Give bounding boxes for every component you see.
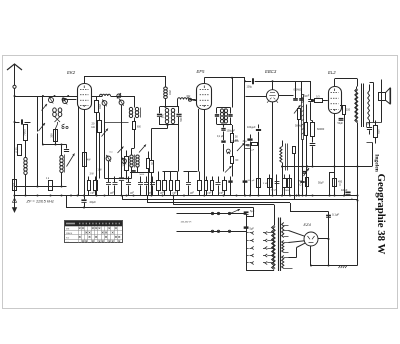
feedback cluster <box>349 123 382 167</box>
svg-text:μμF: μμF <box>160 193 165 195</box>
label osc <box>110 152 114 154</box>
svg-text:5μF: 5μF <box>250 210 255 213</box>
label EF5k <box>187 96 192 98</box>
selector bottom <box>246 270 274 272</box>
variable arrow var2 <box>67 154 75 167</box>
svg-text:50μF: 50μF <box>318 182 324 185</box>
label 50uFb <box>318 182 324 185</box>
EF5 grid <box>189 98 197 101</box>
svg-text:602: 602 <box>98 104 102 109</box>
capacitor x313 <box>310 144 316 168</box>
coil L3 <box>60 145 65 187</box>
ecap 20uF <box>81 196 86 208</box>
wire w5 <box>42 129 67 146</box>
svg-text:LG: LG <box>66 242 69 244</box>
label 0,3 <box>316 94 320 98</box>
svg-text:100μμF: 100μμF <box>227 130 236 133</box>
label 500a <box>161 113 164 118</box>
label 100-240 <box>181 220 193 223</box>
resistor det <box>298 109 301 196</box>
wire right col <box>357 196 359 266</box>
svg-text:1 MΩ: 1 MΩ <box>284 190 290 192</box>
svg-text:ZF = 128,5 kHz: ZF = 128,5 kHz <box>26 199 54 204</box>
power core <box>279 218 281 272</box>
svg-text:Ω: Ω <box>339 184 341 187</box>
out trans prim <box>355 87 358 196</box>
speaker wires <box>370 80 382 123</box>
label 650 <box>377 129 381 134</box>
capacitor row 302 <box>300 182 304 183</box>
bus c <box>148 196 329 212</box>
out trans core <box>362 84 364 128</box>
wire y172 <box>130 172 148 174</box>
wire col42 <box>42 95 44 145</box>
label 0,5M <box>232 140 255 152</box>
IFT1 coils <box>165 108 174 123</box>
voltage taps right <box>263 231 274 264</box>
wire ebc right <box>279 82 302 99</box>
label 500k <box>295 125 302 128</box>
cap spk <box>367 123 372 135</box>
svg-text:100μμF: 100μμF <box>247 126 256 129</box>
tall resistor <box>301 95 304 140</box>
EL2 top wire <box>335 79 358 87</box>
capacitor 10uF <box>341 188 353 201</box>
speaker <box>379 88 391 104</box>
svg-text:602: 602 <box>168 90 172 95</box>
label 7500 <box>23 129 27 136</box>
power sec2 <box>282 256 293 269</box>
resistor 20k <box>92 121 102 133</box>
IFT2 down cap2 <box>221 140 225 171</box>
capacitor row 276 <box>271 175 279 196</box>
tube EK2 <box>78 76 92 196</box>
svg-text:50 μF: 50 μF <box>271 190 277 192</box>
capacitor c2 <box>56 125 58 129</box>
EF5 top wire <box>204 77 245 108</box>
svg-text:0,1 μF: 0,1 μF <box>217 136 224 138</box>
coil osc top <box>164 76 168 99</box>
svg-text:μμF: μμF <box>190 193 195 195</box>
pot volume <box>237 143 245 151</box>
resistor 1k <box>49 181 53 191</box>
EBC3 grid wire <box>246 96 267 98</box>
component row labels <box>91 193 225 195</box>
coil L2 <box>53 108 62 125</box>
resistor row 258 <box>257 179 261 188</box>
svg-text:0,3: 0,3 <box>316 94 320 98</box>
svg-text:100 μF: 100 μF <box>248 180 256 182</box>
wire col99 <box>99 113 101 179</box>
trimmer T3 <box>102 99 124 106</box>
capacitor 0,1uF <box>326 213 339 218</box>
svg-text:μμF: μμF <box>91 193 96 195</box>
label EK2 <box>67 70 76 75</box>
coil h2 <box>178 98 197 107</box>
trimmer T4 <box>106 155 126 164</box>
svg-text:500: 500 <box>180 117 183 122</box>
label 05M <box>294 88 302 92</box>
svg-text:20μF: 20μF <box>90 200 97 204</box>
wire IFT1 down <box>150 124 169 196</box>
IFT2 coils <box>220 109 227 123</box>
svg-text:μμF: μμF <box>130 193 135 195</box>
switch arrow nf <box>225 166 232 173</box>
resistor row 269 <box>263 175 272 196</box>
label coil 602 <box>168 90 172 95</box>
resistor 250ohm <box>298 178 309 187</box>
resistor 7500 <box>24 125 28 158</box>
core osc1 <box>140 108 142 118</box>
resistor 50k ift <box>231 134 239 157</box>
selector top L <box>246 208 253 218</box>
label EBC3 <box>265 69 277 74</box>
resistor 600b <box>133 122 142 130</box>
label EL2 <box>328 70 336 75</box>
ecap row 244 <box>243 180 255 182</box>
switch blade <box>118 145 147 154</box>
small parts nf <box>245 143 258 149</box>
svg-text:+: + <box>351 197 353 201</box>
wire x197 down <box>198 109 200 172</box>
label 602 <box>98 104 102 109</box>
svg-text:EL2: EL2 <box>328 70 336 75</box>
resistor 350 <box>50 130 58 142</box>
wire w6 <box>15 186 67 188</box>
ecap 5uF b <box>244 226 255 230</box>
EL2 grid parts <box>308 82 328 123</box>
IFT2 down cap <box>221 124 225 141</box>
trimmer T2 <box>117 93 121 99</box>
svg-text:WAVE: WAVE <box>66 232 73 235</box>
wire var1 <box>37 96 39 187</box>
label 100uuF b <box>247 126 256 129</box>
label 5000a <box>140 174 145 176</box>
IFT1 cap left <box>157 107 162 125</box>
label 5uF <box>304 95 310 98</box>
coil osc2 <box>130 149 139 179</box>
wire top bus <box>84 76 166 78</box>
EZ4 bottom <box>310 246 312 267</box>
IFT1 stem <box>165 99 167 109</box>
ground arrow <box>12 196 17 214</box>
label 500b <box>180 117 183 122</box>
coil h1 <box>100 94 135 107</box>
label uF r1 <box>367 123 370 126</box>
IFT2 core <box>224 109 226 124</box>
power trans prim <box>272 205 276 270</box>
resistor row 289 <box>284 175 292 196</box>
tube EL2 <box>329 79 342 196</box>
voltage taps left <box>246 231 254 264</box>
label 50c <box>151 163 154 166</box>
bus dots <box>14 195 359 209</box>
wire x306 down <box>306 105 308 123</box>
svg-text:3000: 3000 <box>122 160 126 167</box>
svg-text:50μF: 50μF <box>338 122 344 125</box>
IFT2 frame <box>217 108 231 125</box>
power sec1 <box>282 223 289 238</box>
field coil <box>280 141 283 196</box>
resistor x306 <box>305 123 308 196</box>
resistor 600 <box>95 101 99 196</box>
IFT2 cap left <box>215 108 219 125</box>
wire w10 <box>105 178 132 180</box>
EK2 screen wire <box>92 97 97 101</box>
field core <box>286 144 288 171</box>
label 1W <box>98 170 103 172</box>
IFT1 cap right <box>176 107 181 172</box>
resistor 650 <box>374 121 378 144</box>
label 100u <box>247 85 253 88</box>
EZ4 anode wires <box>289 243 306 257</box>
coil osc1 <box>129 107 138 121</box>
pot arrow right <box>302 168 309 176</box>
resistor NF <box>231 157 240 177</box>
power sec1b <box>282 241 289 253</box>
jack symbol <box>226 149 230 154</box>
resistor rb <box>293 147 296 200</box>
svg-text:μμF: μμF <box>208 193 213 195</box>
label Ingelen <box>374 154 380 173</box>
tube EBC3 <box>266 90 278 196</box>
capacitor d1 <box>293 98 298 100</box>
svg-text:0,5MΩ: 0,5MΩ <box>232 140 239 143</box>
resistor x313 <box>311 123 315 143</box>
antenna <box>7 64 22 96</box>
label EZ4 <box>304 222 312 227</box>
EZ4 heater wires <box>289 231 305 243</box>
switch contacts sc <box>62 124 69 129</box>
svg-text:110 220 V≈: 110 220 V≈ <box>181 220 193 223</box>
svg-text:60000: 60000 <box>317 127 325 131</box>
svg-text:650: 650 <box>377 129 381 134</box>
resistor ek2 stem <box>83 153 92 167</box>
svg-text:ME: ME <box>66 229 70 231</box>
capacitor c3 <box>64 145 69 152</box>
svg-text:Ω: Ω <box>300 183 302 186</box>
trimmer T1 <box>49 95 70 105</box>
bus b <box>123 196 358 200</box>
capacitor input <box>14 119 31 124</box>
tube EF5 <box>197 78 212 196</box>
EZ4 output <box>318 212 330 266</box>
IFT2 cap right <box>228 108 232 125</box>
wire hline166 <box>281 166 359 168</box>
label ZF <box>26 199 54 204</box>
svg-text:2 kΩ: 2 kΩ <box>263 183 268 185</box>
capacitor 100uuF b <box>256 125 261 196</box>
label 60000 <box>317 127 325 131</box>
svg-text:kΩ: kΩ <box>92 125 95 129</box>
EK2 left stem <box>78 106 80 196</box>
wire top3 <box>244 78 311 196</box>
svg-text:150: 150 <box>346 109 351 112</box>
resistor 3000 <box>122 151 129 179</box>
svg-text:350: 350 <box>50 133 54 138</box>
resistor 50x <box>147 152 150 196</box>
wire IFT2 tail <box>231 125 233 134</box>
wire antenna down <box>14 96 16 196</box>
resistor row 284 <box>283 175 287 196</box>
variable arrow var3 <box>102 129 109 137</box>
svg-text:KG: KG <box>66 237 69 239</box>
resistor 450ohm <box>333 179 343 187</box>
EL2 cathode <box>339 106 346 196</box>
component row <box>88 172 227 196</box>
label Geographie 38 W <box>375 174 387 255</box>
resistor 0,25 <box>18 145 22 156</box>
wire x302 down <box>302 140 304 196</box>
wire antenna bus <box>14 95 103 97</box>
svg-text:100μ: 100μ <box>247 85 253 88</box>
svg-text:Ingelen: Ingelen <box>374 154 380 173</box>
svg-text:μμF: μμF <box>173 193 178 195</box>
svg-text:30μ: 30μ <box>243 140 248 143</box>
core osc2 <box>134 155 136 168</box>
svg-text:Geographie 38 W: Geographie 38 W <box>375 174 387 255</box>
wire osc mid <box>132 130 135 149</box>
label 150 <box>346 109 351 112</box>
label 1k <box>46 178 50 180</box>
trimmer arrow var1 <box>39 104 48 131</box>
svg-text:7500: 7500 <box>23 129 27 136</box>
label 2W <box>90 174 95 176</box>
wire L329 <box>329 172 335 197</box>
wire col104 <box>105 105 122 179</box>
resistor 1k5 <box>13 180 17 191</box>
svg-text:5μμF: 5μμF <box>304 95 310 98</box>
svg-text:0,5MΩ: 0,5MΩ <box>294 88 302 92</box>
bus e <box>66 196 254 208</box>
wire hv <box>311 265 358 267</box>
switch line1 <box>177 209 247 215</box>
EK2 grid wire <box>62 98 76 101</box>
ground hatched <box>339 266 348 269</box>
label EF5 <box>197 69 205 74</box>
out trans sec <box>368 85 370 125</box>
svg-text:EBC3: EBC3 <box>265 69 277 74</box>
svg-text:EF5: EF5 <box>197 69 205 74</box>
table <box>65 221 123 244</box>
label 20uF <box>90 200 97 204</box>
svg-text:5μF: 5μF <box>250 227 255 230</box>
label 01uF <box>217 136 224 138</box>
border frame <box>3 56 398 309</box>
svg-text:EZ4: EZ4 <box>304 222 312 227</box>
label 1k5 <box>12 183 15 187</box>
svg-text:10μF: 10μF <box>341 188 348 192</box>
ecap k1 <box>119 173 124 196</box>
pot arrow det <box>294 105 301 114</box>
ecap osc <box>131 167 137 173</box>
coil L1 <box>24 157 27 195</box>
capacitor d2 <box>299 98 304 100</box>
label 100uuF a <box>227 130 236 133</box>
switch line2 <box>177 230 247 232</box>
label 0,25 <box>15 147 19 153</box>
bus d <box>174 196 275 205</box>
svg-text:0,1μF: 0,1μF <box>332 213 339 217</box>
svg-text:μμF: μμF <box>110 193 115 195</box>
ecap 50u <box>247 135 252 196</box>
IFT1 frame <box>160 107 180 125</box>
wire row top <box>163 171 198 173</box>
ecap 5uF a <box>244 210 255 271</box>
svg-text:500: 500 <box>161 113 164 118</box>
label 50uF <box>338 122 344 125</box>
svg-text:μμF: μμF <box>220 193 225 195</box>
svg-text:EK2: EK2 <box>67 70 76 75</box>
svg-text:0,25: 0,25 <box>15 147 19 153</box>
ecap row 230 <box>228 177 232 196</box>
wire y1225 <box>105 122 129 124</box>
bus main <box>14 195 358 197</box>
tube EZ4 <box>304 232 318 246</box>
label 30u <box>243 140 248 143</box>
